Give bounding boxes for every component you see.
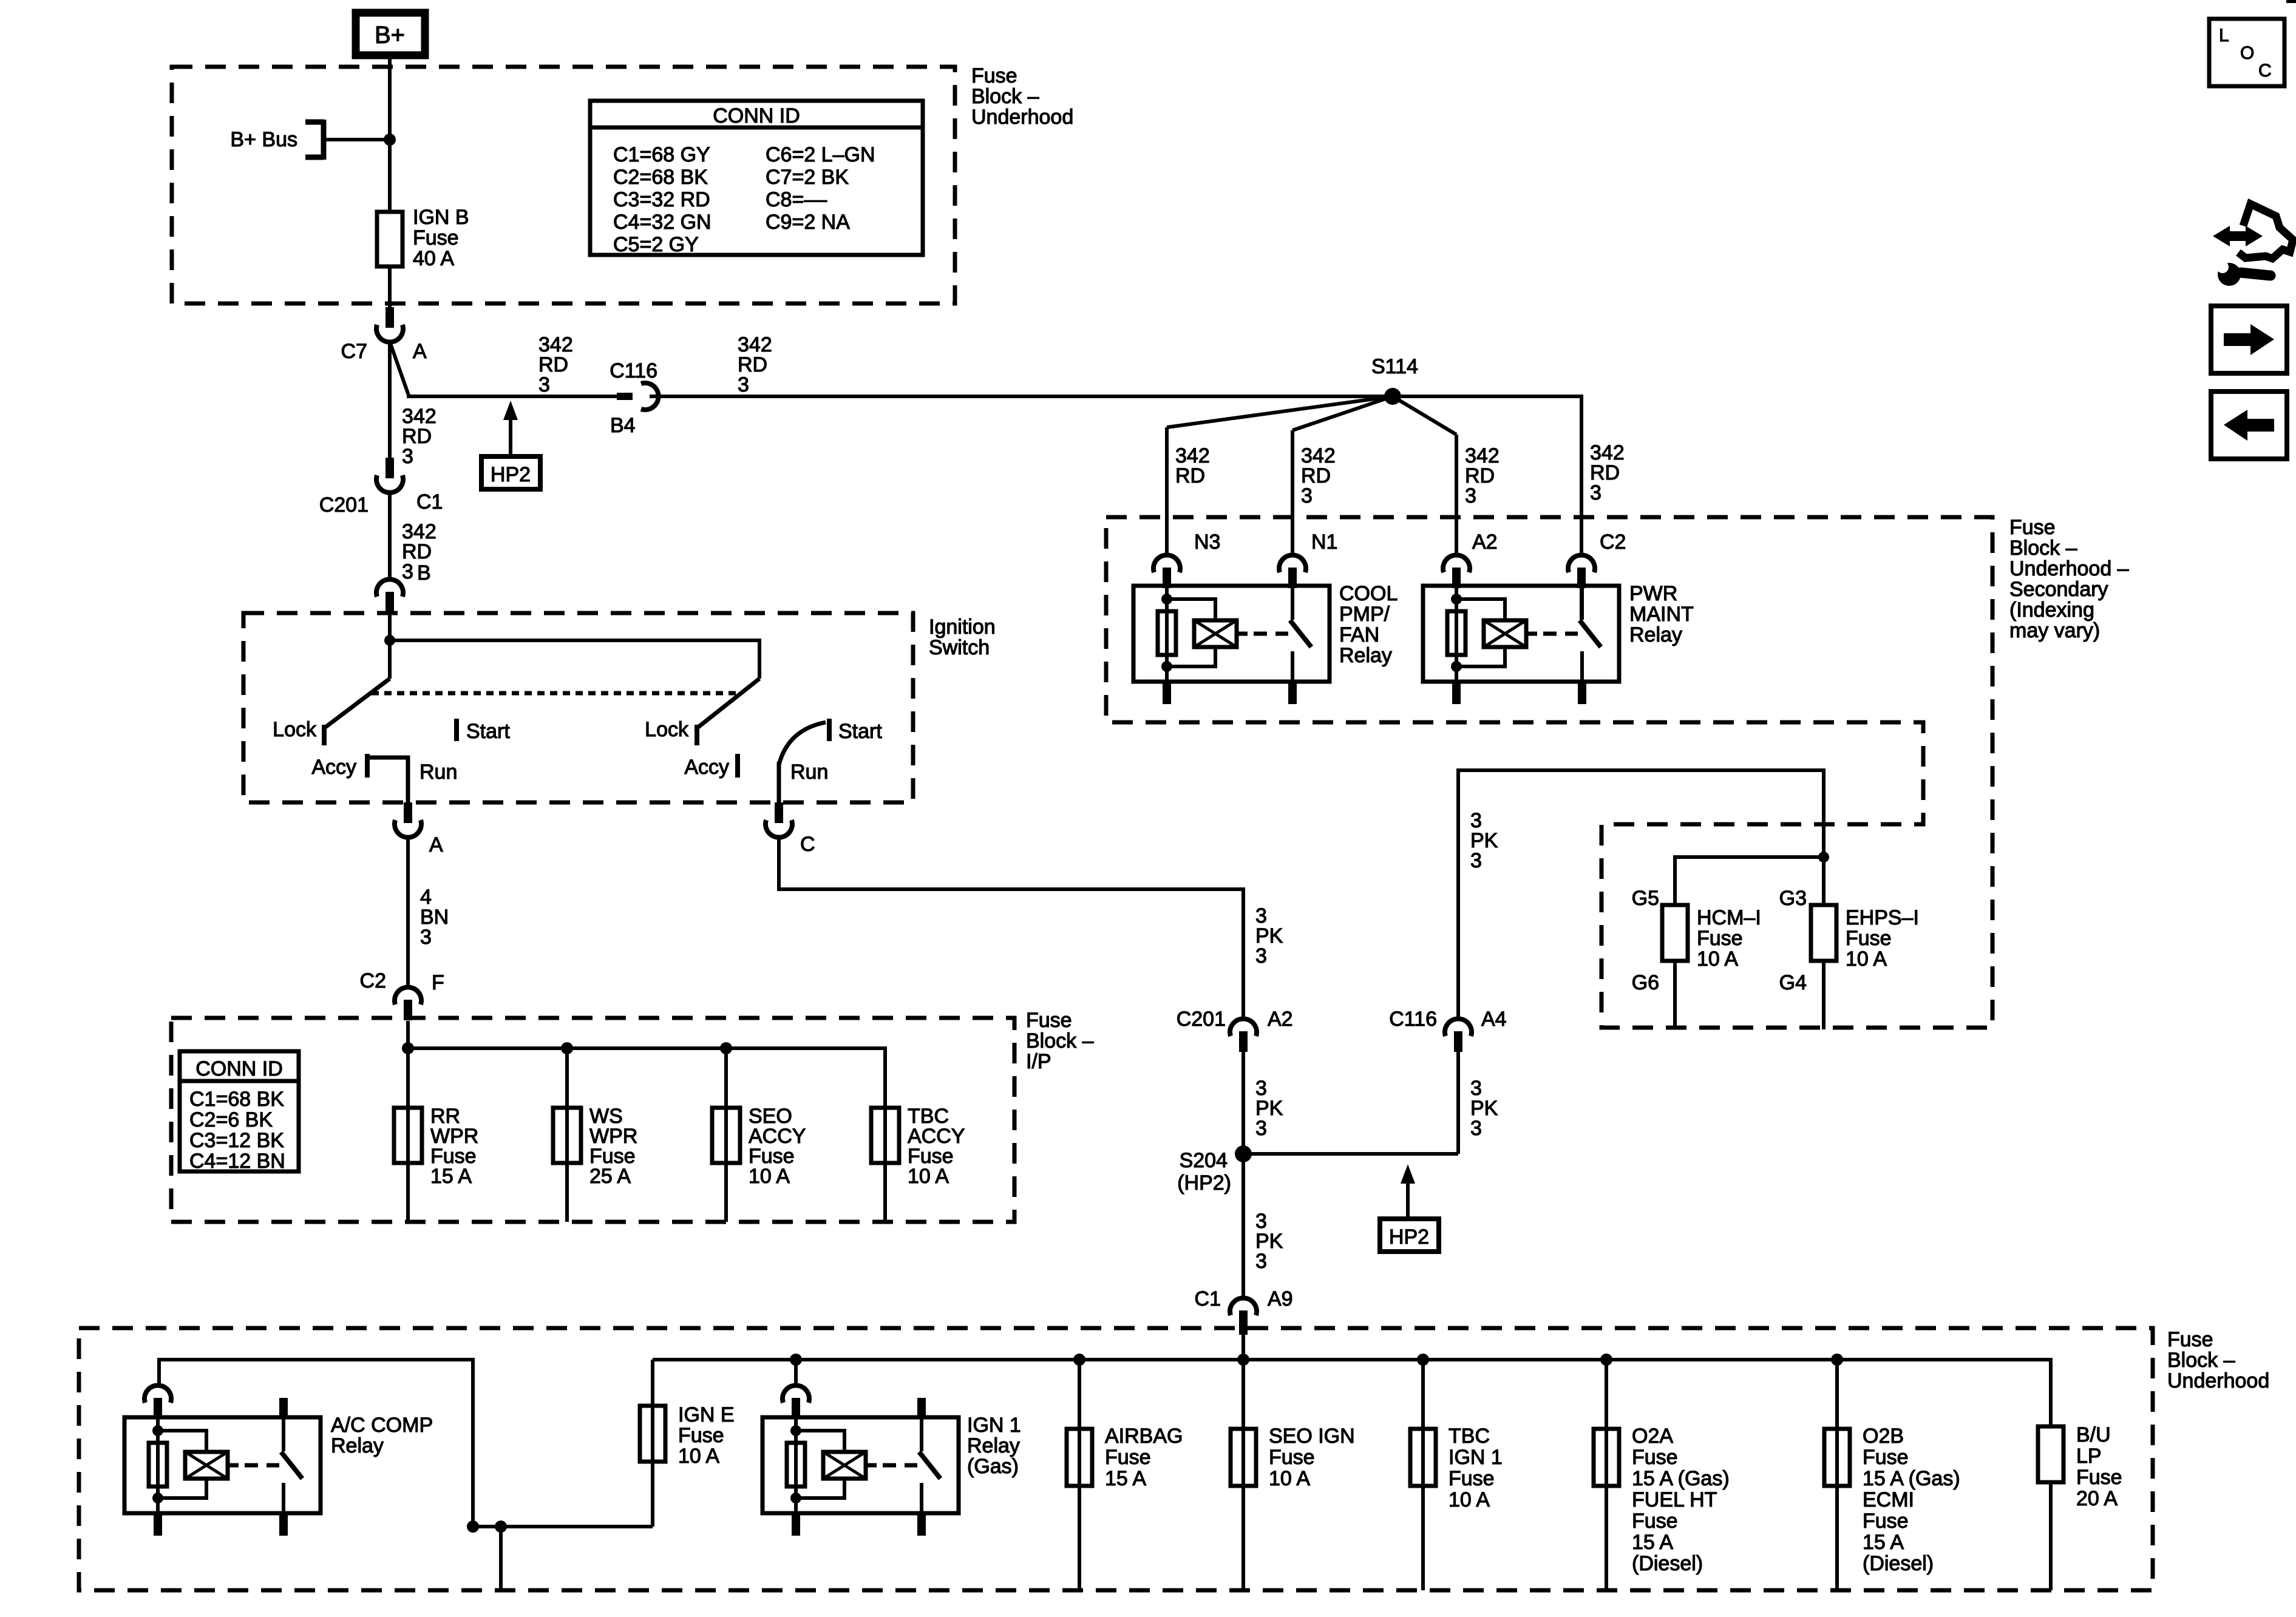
connector B into ignition switch (376, 579, 403, 597)
svg-text:(Diesel): (Diesel) (1632, 1552, 1703, 1575)
splice S204 (HP2) (1235, 1145, 1252, 1162)
wire C201 to B connector (388, 492, 392, 580)
svg-text:Underhood: Underhood (971, 106, 1073, 129)
svg-text:A/C COMP: A/C COMP (331, 1414, 433, 1437)
fuse RR WPR 15 A (406, 1048, 410, 1222)
relay PWR MAINT (1423, 586, 1619, 682)
svg-text:C4=12 BN: C4=12 BN (189, 1150, 285, 1173)
junction dot B+ bus (384, 134, 396, 146)
svg-text:3: 3 (1255, 1117, 1267, 1140)
svg-text:Start: Start (838, 720, 882, 743)
splice S114 (1384, 388, 1401, 405)
wire C7 down to C201 (388, 341, 392, 459)
relay IGN 1 (Gas) (763, 1417, 959, 1513)
svg-text:CONN ID: CONN ID (713, 104, 800, 127)
svg-text:A2: A2 (1268, 1008, 1293, 1031)
svg-text:CONN ID: CONN ID (195, 1057, 283, 1080)
svg-text:Fuse: Fuse (1449, 1467, 1495, 1490)
svg-text:Run: Run (790, 761, 828, 784)
wire A4 up to secondary block (1458, 770, 1824, 1020)
svg-text:Fuse: Fuse (413, 226, 459, 249)
svg-text:G4: G4 (1779, 971, 1807, 994)
svg-text:10 A: 10 A (749, 1165, 790, 1188)
svg-text:Block –: Block – (2167, 1349, 2235, 1372)
svg-text:S114: S114 (1371, 355, 1418, 378)
svg-text:G3: G3 (1779, 887, 1807, 910)
connector C201 pin A2 (1230, 1019, 1257, 1036)
svg-text:C5=2 GY: C5=2 GY (613, 233, 699, 256)
svg-text:10 A: 10 A (678, 1445, 719, 1468)
svg-text:Lock: Lock (273, 718, 317, 741)
svg-text:O2B: O2B (1863, 1425, 1904, 1448)
svg-text:3: 3 (738, 373, 749, 396)
svg-text:C116: C116 (610, 359, 657, 382)
svg-text:L: L (2219, 25, 2229, 46)
svg-text:Fuse: Fuse (1269, 1446, 1315, 1469)
svg-text:C116: C116 (1389, 1008, 1437, 1031)
svg-text:C201: C201 (1177, 1008, 1226, 1031)
connector C201 pin C1 (385, 458, 394, 478)
connector A below ignition switch (404, 802, 412, 823)
svg-text:Underhood –: Underhood – (2009, 557, 2129, 580)
svg-text:Fuse: Fuse (1105, 1446, 1151, 1469)
svg-text:Fuse: Fuse (1846, 927, 1892, 950)
svg-text:Accy: Accy (684, 756, 729, 779)
svg-text:Run: Run (419, 761, 457, 784)
svg-text:Fuse: Fuse (2167, 1328, 2213, 1351)
Fuse Block - I/P dashed box (171, 1018, 1014, 1222)
svg-text:B+: B+ (375, 22, 405, 49)
svg-text:10 A: 10 A (1846, 947, 1887, 971)
svg-text:3: 3 (402, 560, 413, 583)
svg-text:ECMI: ECMI (1863, 1488, 1914, 1511)
svg-text:C1=68 BK: C1=68 BK (189, 1088, 284, 1111)
svg-text:IGN 1: IGN 1 (967, 1414, 1021, 1437)
svg-text:10 A: 10 A (1697, 947, 1738, 971)
junction dot to HCM/EHPS fuses (1818, 852, 1829, 863)
svg-text:Fuse: Fuse (1863, 1446, 1909, 1469)
svg-text:Block –: Block – (2009, 537, 2077, 560)
fuse O2A / FUEL HT (1605, 1360, 1608, 1590)
connector A2 (1443, 555, 1470, 572)
svg-text:A2: A2 (1472, 531, 1498, 554)
connector C1 pin A9 into bottom fuse block (1230, 1298, 1257, 1315)
connector N1 (1279, 555, 1306, 572)
Run output right with Start blade curve (779, 722, 826, 765)
svg-text:Underhood: Underhood (2167, 1369, 2269, 1392)
svg-text:C3=12 BK: C3=12 BK (189, 1129, 284, 1152)
svg-text:B4: B4 (610, 414, 636, 437)
Accy contact left (365, 754, 370, 778)
svg-text:Relay: Relay (967, 1434, 1020, 1457)
svg-text:B: B (417, 561, 431, 585)
svg-text:C8=––: C8=–– (766, 188, 827, 211)
wire B+ to IGN B fuse (388, 55, 392, 213)
svg-text:(HP2): (HP2) (1177, 1171, 1231, 1195)
svg-text:15 A: 15 A (1105, 1467, 1146, 1490)
svg-text:40 A: 40 A (413, 247, 454, 270)
connector C below ignition switch (775, 802, 783, 823)
svg-text:Fuse: Fuse (1632, 1446, 1678, 1469)
svg-text:PWR: PWR (1629, 582, 1677, 605)
svg-text:Block –: Block – (1026, 1029, 1094, 1053)
svg-text:IGN B: IGN B (413, 206, 469, 229)
svg-text:3: 3 (402, 445, 413, 468)
svg-text:G5: G5 (1632, 887, 1659, 910)
svg-text:10 A: 10 A (908, 1165, 949, 1188)
svg-text:N1: N1 (1311, 531, 1337, 554)
connector C2 pin F into I/P fuse block (395, 987, 421, 1005)
fuse WS WPR 25 A (565, 1048, 569, 1222)
svg-text:C7: C7 (341, 340, 367, 363)
svg-text:C2=6 BK: C2=6 BK (189, 1108, 273, 1131)
connector C2 (1568, 555, 1595, 572)
svg-text:(Gas): (Gas) (967, 1455, 1019, 1478)
svg-text:3: 3 (538, 373, 550, 396)
svg-text:C2=68 BK: C2=68 BK (613, 166, 708, 189)
svg-text:C1=68 GY: C1=68 GY (613, 143, 710, 166)
svg-text:Relay: Relay (1339, 644, 1392, 667)
svg-text:20 A: 20 A (2076, 1487, 2118, 1510)
svg-text:C2: C2 (1600, 531, 1626, 554)
relay A/C COMP connector (144, 1385, 171, 1403)
wire A to C2/F (406, 837, 410, 988)
svg-text:10 A: 10 A (1449, 1488, 1490, 1511)
svg-text:(Diesel): (Diesel) (1863, 1552, 1934, 1575)
svg-text:3: 3 (1255, 944, 1267, 968)
fuse O2B / ECMI (1835, 1360, 1839, 1590)
svg-text:C1: C1 (416, 490, 443, 514)
svg-text:A9: A9 (1268, 1287, 1293, 1310)
svg-text:EHPS–I: EHPS–I (1846, 906, 1919, 929)
fuse IGN B 40 A (377, 212, 402, 266)
back arrow box (2211, 392, 2287, 459)
svg-text:Relay: Relay (1629, 623, 1682, 646)
svg-text:C: C (800, 833, 815, 856)
connector N3 (1153, 555, 1180, 572)
relay IGN 1 connector (783, 1385, 809, 1403)
svg-text:PMP/: PMP/ (1339, 603, 1390, 626)
Run output left (370, 758, 408, 802)
connector C116 pin B4 (horizontal) (617, 393, 633, 400)
forward arrow box (2211, 306, 2287, 373)
svg-text:HP2: HP2 (1389, 1225, 1429, 1249)
svg-text:LP: LP (2076, 1445, 2102, 1468)
wire C116 to S114 (650, 395, 1393, 398)
svg-text:Fuse: Fuse (1697, 927, 1743, 950)
Fuse Block - Underhood dashed box (172, 67, 955, 303)
svg-text:AIRBAG: AIRBAG (1105, 1425, 1183, 1448)
Start contact right (827, 719, 832, 741)
mechanical linkage dotted line (372, 691, 741, 696)
svg-text:15 A (Gas): 15 A (Gas) (1632, 1467, 1730, 1490)
svg-text:3: 3 (420, 926, 432, 949)
HP2 takeout arrow (lower) (1401, 1164, 1415, 1184)
svg-text:FAN: FAN (1339, 623, 1379, 646)
svg-text:10 A: 10 A (1269, 1467, 1310, 1490)
CONN ID table (underhood) (590, 101, 923, 255)
fuse B/U LP 20 A (2038, 1426, 2063, 1482)
svg-text:25 A: 25 A (589, 1165, 631, 1188)
fuse SEO IGN 10 A (1241, 1360, 1245, 1590)
svg-text:MAINT: MAINT (1629, 603, 1694, 626)
svg-text:C9=2 NA: C9=2 NA (766, 211, 850, 234)
svg-text:3: 3 (1590, 481, 1601, 504)
svg-text:F: F (432, 971, 444, 994)
svg-text:C201: C201 (319, 493, 369, 517)
svg-text:S204: S204 (1180, 1149, 1228, 1172)
switch blade right (Lock) (698, 679, 759, 727)
svg-text:C2: C2 (360, 969, 386, 992)
svg-text:Fuse: Fuse (1863, 1510, 1909, 1533)
svg-text:C3=32 RD: C3=32 RD (613, 188, 710, 211)
fuse HCM-I 10 A (1662, 905, 1688, 961)
svg-text:Fuse: Fuse (678, 1424, 724, 1447)
svg-text:Accy: Accy (311, 756, 356, 779)
svg-text:Fuse: Fuse (1026, 1009, 1072, 1032)
svg-text:3: 3 (1255, 1250, 1267, 1273)
connector C116 pin A4 (1445, 1019, 1472, 1036)
svg-text:A: A (429, 833, 443, 856)
svg-text:FUEL HT: FUEL HT (1632, 1488, 1717, 1511)
B+ terminal box (356, 13, 425, 55)
B+ Bus tap bracket (305, 120, 324, 160)
svg-text:Relay: Relay (331, 1434, 384, 1457)
wire B+ Bus to main line (325, 138, 390, 141)
svg-text:3: 3 (1465, 484, 1476, 507)
svg-text:Switch: Switch (929, 636, 990, 659)
svg-text:TBC: TBC (1449, 1425, 1490, 1448)
svg-text:Block –: Block – (971, 85, 1039, 108)
switch blade left (Lock) (325, 679, 390, 727)
svg-text:COOL: COOL (1339, 582, 1398, 605)
Ignition Switch dashed box (243, 613, 913, 802)
svg-text:HP2: HP2 (491, 463, 531, 486)
svg-text:A: A (413, 340, 427, 363)
fuse IGN E 10 A (651, 1360, 654, 1527)
fuse SEO ACCY 10 A (724, 1048, 728, 1222)
ignition switch internal wiring (388, 613, 392, 679)
LOC legend box (2209, 19, 2284, 86)
lock contact left (322, 725, 327, 745)
svg-text:Fuse: Fuse (1632, 1510, 1678, 1533)
svg-text:C7=2 BK: C7=2 BK (766, 166, 849, 189)
service icon with double arrow and wrench (2213, 226, 2263, 246)
svg-text:15 A: 15 A (430, 1165, 472, 1188)
bottom fuse block bus wires (159, 1360, 653, 1527)
Fuse Block - Underhood - Secondary dashed outline (1106, 517, 1992, 1028)
fuse TBC ACCY 10 A (883, 1108, 887, 1222)
svg-text:IGN 1: IGN 1 (1449, 1446, 1503, 1469)
branch wire C7 to C116 (390, 342, 617, 396)
svg-text:A4: A4 (1481, 1008, 1507, 1031)
svg-text:Fuse: Fuse (971, 64, 1017, 87)
svg-text:G6: G6 (1632, 971, 1659, 994)
svg-text:N3: N3 (1194, 531, 1220, 554)
svg-text:C: C (2258, 61, 2272, 81)
svg-text:C1: C1 (1195, 1287, 1221, 1310)
I/P internal bus (408, 1048, 885, 1108)
wire C to C201/A2 run (779, 837, 1243, 1020)
fuse EHPS-I 10 A (1811, 905, 1836, 961)
svg-text:3: 3 (1470, 849, 1482, 872)
svg-text:IGN E: IGN E (678, 1403, 735, 1426)
fuse TBC IGN 1 10 A (1421, 1360, 1425, 1590)
connector C7 pin A (388, 266, 392, 308)
S114 branch wires to secondary fuse block (1167, 396, 1393, 427)
Start contact left (454, 719, 459, 741)
svg-text:15 A (Gas): 15 A (Gas) (1863, 1467, 1960, 1490)
svg-text:O2A: O2A (1632, 1425, 1673, 1448)
svg-text:Start: Start (466, 720, 510, 743)
svg-text:Fuse: Fuse (2009, 516, 2056, 539)
svg-text:Ignition: Ignition (929, 615, 996, 639)
relay COOL PMP/FAN (1133, 586, 1330, 682)
CONN ID table (I/P) (180, 1051, 299, 1171)
svg-text:HCM–I: HCM–I (1697, 906, 1761, 929)
fuse AIRBAG 15 A (1078, 1360, 1081, 1590)
relay A/C COMP (124, 1417, 321, 1513)
svg-text:C4=32 GN: C4=32 GN (613, 211, 712, 234)
svg-text:B+ Bus: B+ Bus (230, 128, 297, 151)
svg-text:RD: RD (1175, 464, 1205, 487)
svg-text:Fuse: Fuse (2076, 1466, 2122, 1489)
svg-text:3: 3 (1470, 1117, 1482, 1140)
svg-text:(Indexing: (Indexing (2009, 598, 2094, 622)
svg-text:15 A: 15 A (1863, 1531, 1904, 1554)
HP2 takeout arrow (upper) (503, 401, 518, 420)
Fuse Block - Underhood (bottom) dashed box (79, 1328, 2153, 1590)
svg-text:Lock: Lock (645, 718, 689, 741)
svg-text:3: 3 (1301, 484, 1313, 507)
svg-text:C6=2 L–GN: C6=2 L–GN (766, 143, 875, 166)
Accy contact right (735, 754, 740, 778)
svg-text:O: O (2240, 43, 2254, 63)
svg-text:SEO IGN: SEO IGN (1269, 1425, 1355, 1448)
svg-text:Secondary: Secondary (2009, 578, 2108, 601)
svg-text:15 A: 15 A (1632, 1531, 1673, 1554)
svg-text:I/P: I/P (1026, 1050, 1051, 1073)
svg-text:B/U: B/U (2076, 1423, 2111, 1446)
svg-text:may vary): may vary) (2009, 619, 2100, 642)
lock contact right (695, 725, 699, 745)
